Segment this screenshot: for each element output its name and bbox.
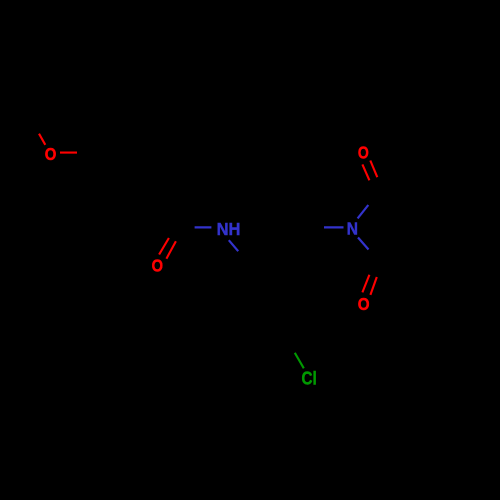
- svg-text:N: N: [347, 219, 358, 239]
- svg-text:Cl: Cl: [302, 368, 317, 389]
- svg-text:O: O: [358, 143, 369, 163]
- svg-text:O: O: [45, 144, 57, 164]
- svg-text:O: O: [358, 294, 370, 314]
- svg-text:O: O: [152, 256, 163, 276]
- svg-text:NH: NH: [217, 219, 241, 239]
